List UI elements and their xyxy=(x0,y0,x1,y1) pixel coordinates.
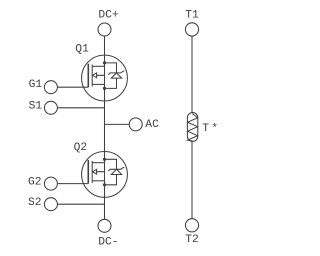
transistor Q1 xyxy=(57,43,127,100)
body diode D1 rails xyxy=(105,63,117,89)
terminal G2 xyxy=(28,177,57,190)
wire T1 to thermistor xyxy=(191,36,193,113)
channel Q2 xyxy=(91,161,93,183)
terminal S1 xyxy=(29,101,58,115)
wire AC branch xyxy=(105,123,130,125)
gate bar Q1 xyxy=(87,64,89,87)
svg-text:S2: S2 xyxy=(28,197,42,209)
wire DC+ to Q1 xyxy=(104,36,106,63)
node DC+ xyxy=(98,9,119,36)
gate wire Q2 xyxy=(57,183,88,185)
svg-text:DC+: DC+ xyxy=(98,9,119,21)
body arrow Q2 xyxy=(93,169,105,174)
terminal S2 xyxy=(28,197,57,211)
body diode D2 zener cathode xyxy=(108,167,124,171)
node T2 xyxy=(185,219,199,246)
svg-text:AC: AC xyxy=(145,119,159,131)
transistor Q2 xyxy=(57,142,127,197)
drain stub Q1 xyxy=(92,65,104,67)
svg-text:DC-: DC- xyxy=(98,237,118,249)
gate wire Q1 xyxy=(57,86,88,88)
wire S1 xyxy=(57,107,104,109)
junction dot Q1 source xyxy=(103,87,106,90)
svg-text:S1: S1 xyxy=(29,101,43,113)
body diode D2 triangle xyxy=(111,169,121,174)
source stub Q1 xyxy=(92,83,104,85)
thermistor RT zigzag xyxy=(188,114,198,142)
wire thermistor to T2 xyxy=(191,141,193,218)
body diode D1 triangle xyxy=(111,73,121,78)
body diode D1 zener cathode xyxy=(108,71,124,75)
svg-text:Q1: Q1 xyxy=(75,43,89,55)
wire S2 xyxy=(57,203,104,205)
junction dot Q2 drain xyxy=(103,158,106,161)
svg-text:T1: T1 xyxy=(185,10,199,22)
body arrow Q1 xyxy=(93,73,105,78)
drain stub Q2 xyxy=(92,162,104,164)
terminal G1 xyxy=(29,79,58,94)
wire main vertical column xyxy=(104,63,106,219)
thermistor RT body xyxy=(187,113,197,142)
svg-text:*: * xyxy=(211,123,218,135)
terminal AC xyxy=(129,118,159,131)
svg-text:T: T xyxy=(202,123,209,135)
svg-text:T2: T2 xyxy=(185,234,199,246)
node T1 xyxy=(185,10,199,37)
channel Q1 xyxy=(91,65,93,87)
svg-text:G1: G1 xyxy=(29,79,43,91)
node DC- xyxy=(98,219,119,248)
gate bar Q2 xyxy=(87,160,89,184)
body diode D2 rails xyxy=(105,159,117,185)
svg-text:G2: G2 xyxy=(28,177,42,189)
source stub Q2 xyxy=(92,180,104,182)
junction dot Q2 source xyxy=(103,183,106,186)
junction dot Q1 drain xyxy=(103,61,106,64)
svg-text:Q2: Q2 xyxy=(74,142,88,154)
